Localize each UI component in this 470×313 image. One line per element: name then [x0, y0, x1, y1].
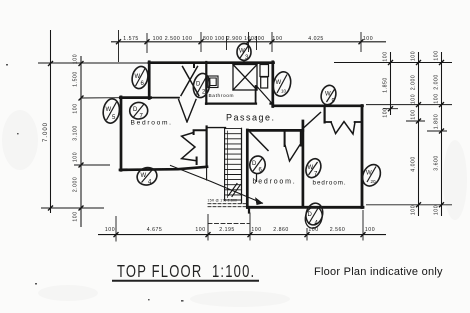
- wall right-upper vertical: [271, 62, 274, 107]
- svg-text:100 2.500 100: 100 2.500 100: [153, 36, 193, 42]
- svg-text:100: 100: [73, 103, 79, 113]
- bottom dim ticks: [116, 210, 363, 242]
- wall mid-bedroom top: [248, 129, 303, 132]
- WC cistern and bowl: [260, 65, 269, 89]
- right dim texts rotated: [383, 50, 440, 215]
- shower with cross: [233, 65, 257, 91]
- door stubs mid-bedroom right opening: [285, 131, 301, 146]
- svg-text:D: D: [252, 161, 257, 167]
- dimension column right B: [418, 52, 420, 216]
- svg-text:100: 100: [251, 227, 261, 233]
- svg-text:100: 100: [73, 152, 79, 162]
- svg-text:2.195: 2.195: [219, 227, 234, 233]
- svg-text:100: 100: [411, 94, 417, 104]
- label ellipse D/7: [129, 102, 148, 120]
- door leaf right bedroom: [304, 113, 321, 128]
- right extension tick rows: [334, 63, 452, 205]
- svg-text:15R @ 175 2.800: 15R @ 175 2.800: [208, 199, 238, 203]
- svg-text:W: W: [141, 173, 147, 179]
- wall bottom exterior: [249, 206, 364, 209]
- svg-text:TOP FLOOR: TOP FLOOR: [117, 262, 202, 281]
- bottom dim texts: [105, 227, 375, 233]
- top dim ticks: [119, 30, 362, 62]
- break marks on arrow: [229, 184, 241, 197]
- wall right exterior: [361, 106, 364, 208]
- svg-text:100: 100: [434, 93, 440, 103]
- svg-text:20: 20: [371, 179, 377, 184]
- door stub top wall: [193, 63, 195, 68]
- svg-text:100: 100: [434, 205, 440, 215]
- wall stair right: [246, 130, 249, 208]
- top dim slashes: [116, 39, 364, 44]
- wall closet thin extension: [206, 167, 208, 180]
- svg-text:7.000: 7.000: [43, 122, 49, 142]
- label ellipse W/7: [303, 156, 323, 179]
- bottom dim slashes: [114, 232, 366, 237]
- wall top exterior: [149, 61, 274, 64]
- svg-text:W: W: [276, 80, 282, 86]
- svg-text:4.025: 4.025: [308, 36, 323, 42]
- wall between bedrooms x303: [302, 121, 305, 207]
- svg-text:W: W: [308, 165, 314, 171]
- svg-text:2.000: 2.000: [411, 75, 417, 90]
- top dim texts: [123, 36, 373, 42]
- svg-text:100: 100: [272, 36, 282, 42]
- svg-text:100: 100: [365, 227, 375, 233]
- svg-text:100: 100: [73, 211, 79, 221]
- bathroom door leaf: [255, 86, 257, 104]
- wall stair landing edge: [207, 127, 226, 129]
- label ellipse W/9: [319, 84, 338, 107]
- svg-text:1.800: 1.800: [434, 114, 440, 129]
- svg-text:800: 800: [254, 36, 264, 42]
- wall bathroom left: [205, 62, 207, 104]
- svg-text:3.100: 3.100: [73, 125, 79, 140]
- svg-text:D: D: [196, 82, 201, 88]
- svg-text:bedroom.: bedroom.: [313, 180, 347, 187]
- svg-text:W: W: [135, 74, 141, 80]
- stair strings: [224, 128, 226, 200]
- dimension line top: [111, 41, 386, 43]
- leader line D/6: [256, 174, 258, 183]
- label ellipse W/5: [102, 98, 121, 124]
- svg-text:2.000: 2.000: [434, 74, 440, 89]
- wall stub stairwell corner: [248, 207, 250, 213]
- stair treads: [225, 129, 242, 200]
- svg-text:Floor Plan indicative only: Floor Plan indicative only: [314, 266, 443, 278]
- left dim texts rotated: [43, 54, 79, 222]
- svg-text:100: 100: [411, 205, 417, 215]
- svg-text:100: 100: [383, 107, 389, 117]
- dimension column right C: [441, 52, 443, 216]
- door swing V mid-bedroom: [285, 145, 300, 161]
- dimension column right A: [390, 52, 392, 115]
- basin: [208, 76, 218, 88]
- svg-text:100: 100: [411, 109, 417, 119]
- svg-text:Passage.: Passage.: [226, 113, 276, 123]
- svg-text:100: 100: [105, 227, 115, 233]
- wall left-upper vertical: [148, 62, 151, 99]
- svg-text:W: W: [366, 171, 372, 177]
- svg-text:2.000: 2.000: [73, 177, 79, 192]
- svg-text:800: 800: [203, 36, 213, 42]
- svg-text:100: 100: [411, 51, 417, 61]
- svg-text:Bedroom.: Bedroom.: [131, 120, 173, 127]
- closet zigzag left bedroom: [194, 130, 207, 134]
- left extension tick rows: [38, 63, 149, 208]
- dimension column left outer 7.000: [50, 30, 52, 213]
- stairwell dashed lines: [208, 203, 246, 205]
- svg-text:1.850: 1.850: [383, 77, 389, 92]
- svg-text:2.860: 2.860: [273, 227, 288, 233]
- label ellipse W/3: [237, 44, 251, 61]
- svg-text:100: 100: [434, 50, 440, 60]
- right tick slashes: [388, 60, 444, 207]
- wall left exterior: [120, 97, 123, 171]
- svg-text:100: 100: [363, 36, 373, 42]
- door leaf mid-bedroom left: [250, 132, 268, 151]
- label ellipse D/2: [192, 72, 212, 99]
- wall top-right exterior: [273, 104, 363, 107]
- title underline: [112, 280, 259, 282]
- leader line W/3: [243, 60, 245, 63]
- wall step horizontal: [120, 96, 150, 99]
- svg-text:1.575: 1.575: [123, 36, 138, 42]
- dimension column left inner: [80, 56, 82, 227]
- svg-text:4.675: 4.675: [147, 227, 162, 233]
- svg-text:3.600: 3.600: [434, 155, 440, 170]
- door X top-left dressing: [181, 67, 199, 96]
- svg-text:100: 100: [195, 227, 205, 233]
- svg-text:100 2.900 100: 100 2.900 100: [215, 36, 255, 42]
- door swing V into left bedroom: [179, 100, 196, 123]
- svg-text:W: W: [106, 107, 112, 113]
- svg-text:W: W: [239, 49, 245, 55]
- svg-text:100: 100: [308, 227, 318, 233]
- wall bottom-left exterior: [120, 167, 207, 170]
- wall closet vertical: [206, 127, 208, 167]
- svg-text:Bathroom: Bathroom: [209, 93, 235, 99]
- closet W right bedroom: [324, 107, 326, 123]
- label ellipse D/4: [303, 201, 325, 230]
- svg-text:W: W: [325, 92, 331, 98]
- svg-text:100: 100: [383, 51, 389, 61]
- label ellipse W/10: [271, 70, 293, 98]
- wall bathroom bottom: [206, 102, 273, 104]
- arrowhead: [256, 198, 263, 205]
- svg-text:1.500: 1.500: [73, 71, 79, 86]
- svg-text:10: 10: [281, 89, 287, 94]
- stair direction arrow: [171, 166, 263, 204]
- svg-text:D: D: [308, 212, 313, 218]
- label ellipse W/6: [130, 65, 150, 90]
- label ellipse W/8: [359, 162, 384, 189]
- label ellipse D/6: [249, 155, 267, 175]
- svg-text:100: 100: [73, 54, 79, 64]
- svg-text:bedroom.: bedroom.: [253, 179, 297, 186]
- svg-text:D: D: [133, 107, 138, 113]
- svg-text:2.560: 2.560: [330, 227, 345, 233]
- svg-text:4.000: 4.000: [411, 156, 417, 171]
- label ellipse W/4: [135, 165, 159, 188]
- dimension line bottom: [98, 234, 386, 236]
- svg-text:1:100.: 1:100.: [212, 262, 255, 281]
- wall bedroom top interior: [150, 97, 179, 99]
- left tick slashes: [48, 61, 84, 211]
